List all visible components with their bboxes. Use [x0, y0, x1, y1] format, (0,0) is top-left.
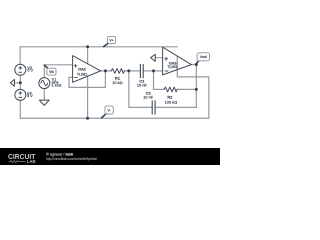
op-amp OA3 + marker: [165, 57, 168, 60]
label C2 value: [143, 90, 154, 99]
ground (left, between V2 and V3): [10, 79, 14, 86]
op-amp OA2 - marker: [75, 76, 78, 78]
svg-text:1 kHz: 1 kHz: [52, 83, 62, 88]
wire R2 right to output riser: [177, 88, 196, 90]
flag Vin: [44, 65, 56, 75]
wire OA2 V+ supply pin: [87, 47, 89, 64]
label R1 value: [112, 76, 122, 86]
svg-text:© agraser / lab8: © agraser / lab8: [46, 152, 73, 156]
wire V1 top to OA2 + input: [44, 65, 72, 78]
wire V- to OA3 supply pin: [177, 56, 209, 77]
svg-text:10 nF: 10 nF: [143, 95, 154, 100]
flag V+: [104, 36, 116, 46]
label V1 value: [52, 76, 62, 87]
op-amp OA3 - marker: [165, 70, 168, 72]
svg-text:LAB: LAB: [27, 159, 36, 164]
svg-text:OA2: OA2: [78, 68, 86, 72]
svg-text:5 V: 5 V: [27, 93, 33, 98]
wire mid rail to left ground: [14, 82, 20, 84]
wire V- bottom rail: [20, 117, 209, 119]
junction node B (C1/OA3-/R2): [152, 69, 155, 72]
label C1 value: [137, 79, 148, 88]
wire node B down to R2 left: [154, 71, 164, 90]
svg-text:100 kΩ: 100 kΩ: [165, 99, 178, 104]
svg-text:Vout: Vout: [200, 55, 207, 59]
voltage source V2: [15, 64, 26, 75]
capacitor C2: [152, 101, 155, 114]
wire C1 right to OA3 - input: [143, 70, 162, 72]
footer bar: [0, 148, 220, 165]
junction R2 to riser: [195, 88, 198, 91]
wire node A down and C2 left: [129, 71, 152, 108]
junction OA2 output node: [104, 69, 107, 72]
wire left rail mid (V2 bottom to V3 top): [19, 75, 21, 89]
wire output riser (Vout to C2/R2): [195, 65, 197, 108]
wire OA3 output: [191, 64, 196, 66]
op-amp OA2 + marker: [74, 64, 77, 67]
capacitor C1: [140, 64, 143, 77]
ground (OA3 + input): [151, 54, 156, 61]
ground (below V1): [39, 100, 49, 105]
label OA3 name: [167, 61, 177, 69]
junction left ground node: [19, 81, 22, 84]
resistor R2: [164, 87, 177, 92]
junction OA2 V+ pin on top rail: [86, 45, 89, 48]
svg-text:http://circuitlab.com/c/xhu9b9: http://circuitlab.com/c/xhu9b9ym5sr/: [46, 157, 97, 161]
voltage source V1 (sine): [39, 78, 50, 89]
label V2 value: [27, 65, 33, 73]
wire C2 right: [155, 106, 196, 108]
svg-text:Vin: Vin: [49, 70, 54, 74]
voltage source V3: [15, 89, 26, 100]
wire left rail upper (top rail to V2 top): [19, 47, 21, 65]
svg-text:TL081: TL081: [167, 65, 177, 69]
flag V-: [102, 106, 114, 118]
footer credit text: [46, 152, 97, 161]
wire left rail lower (V3 bottom to bottom rail): [19, 100, 21, 118]
svg-text:10 kΩ: 10 kΩ: [112, 80, 122, 85]
svg-text:V+: V+: [109, 38, 113, 42]
CircuitLab logo: [8, 152, 36, 164]
wire V+ top rail: [20, 46, 177, 48]
op-amp OA3 triangle: [163, 47, 192, 75]
junction node A (R1/C1/C2): [127, 69, 130, 72]
resistor R1: [111, 69, 124, 74]
label R2 value: [165, 95, 178, 105]
wire OA2 V- supply pin: [87, 76, 89, 118]
wire R1 to node A and C1 left: [125, 70, 141, 72]
label V3 value: [27, 91, 33, 99]
svg-text:TL081: TL081: [77, 72, 87, 76]
wire OA3 + input to ground: [155, 57, 162, 59]
wire OA2 feedback loop: [69, 71, 105, 88]
wire V1 bottom to ground: [43, 89, 45, 101]
flag Vout: [196, 53, 210, 64]
svg-text:10 nF: 10 nF: [137, 83, 148, 88]
svg-text:5 V: 5 V: [27, 68, 33, 73]
svg-text:V-: V-: [107, 108, 110, 112]
wire right V- riser: [208, 77, 210, 118]
label OA2 name: [77, 68, 87, 77]
junction Vout node: [195, 63, 198, 66]
op-amp OA2 triangle: [73, 56, 101, 83]
wire OA2 output to R1: [101, 70, 112, 72]
junction OA2 V- pin on bottom rail: [86, 117, 89, 120]
